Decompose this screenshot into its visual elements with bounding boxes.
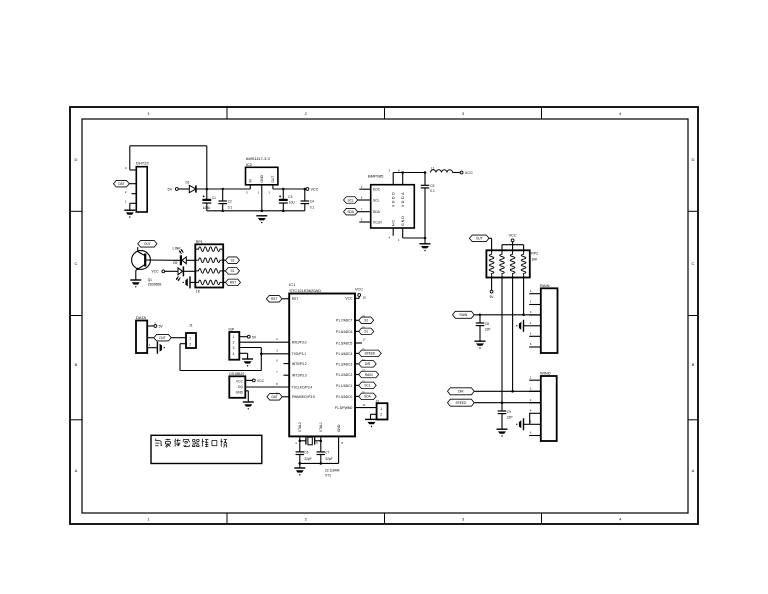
svg-text:0.1: 0.1 [310,205,315,209]
wire 5V to D1 [178,188,189,190]
svg-text:P1.2/ADC2: P1.2/ADC2 [336,373,353,377]
IC2 OUT pin [269,185,273,195]
capacitor C5 0.1 [421,173,435,244]
flag SCL at BMP085 [344,196,371,204]
svg-text:0.1: 0.1 [228,205,233,209]
svg-text:P1.7/ADC7: P1.7/ADC7 [336,319,353,323]
terminal VCC at D6 [152,270,165,274]
wire BMP085 GND pin [398,228,425,242]
wire J1 pin2 to TXD net [180,344,263,371]
svg-text:SCL: SCL [364,384,370,388]
ground at IC2 [256,216,267,224]
svg-text:P1.3/ADC3: P1.3/ADC3 [336,362,353,366]
svg-text:PWM0ECI/P3.5: PWM0ECI/P3.5 [292,395,315,399]
flag S1 at MCU [355,326,374,335]
ground at crystal [294,468,305,475]
svg-text:17: 17 [363,337,367,341]
svg-text:VCC: VCC [257,379,265,383]
svg-text:RP2: RP2 [531,252,538,256]
ground rail under IC2 [207,210,305,213]
ground at RAIN pin4 [516,320,529,332]
ground at ISP [242,359,253,366]
svg-text:RAIN: RAIN [365,373,373,377]
svg-text:A: A [692,468,695,473]
svg-text:SDA: SDA [364,395,371,399]
wire TXD to MCU [261,349,289,354]
border frame [70,107,698,524]
svg-text:22P: 22P [485,327,491,331]
svg-text:C2: C2 [228,199,232,203]
svg-text:NC: NC [392,219,396,226]
flag S2 at MCU [355,314,374,323]
svg-text:VCC: VCC [465,171,473,175]
crystal XT1 22.1184M [300,437,340,478]
IC2 GND pin [257,185,261,211]
svg-text:10K: 10K [531,258,538,262]
ground at WIND pin5 [516,418,529,430]
svg-text:RAIN: RAIN [460,313,468,317]
svg-text:S1: S1 [230,269,234,273]
svg-text:EOC: EOC [373,188,381,192]
wire ISP pin2 to MCU RXD [239,337,289,342]
wire VCC bus to RP2 [502,245,524,252]
svg-text:0.1: 0.1 [430,189,435,193]
svg-text:P1.4/ADC4: P1.4/ADC4 [336,352,353,356]
svg-text:VCC: VCC [509,234,517,238]
wire J2 pin2 to ground [365,414,378,419]
svg-text:VCC: VCC [311,188,319,192]
flag DIR to connector [448,388,541,395]
svg-text:OUT: OUT [271,176,275,183]
svg-text:SCL: SCL [347,198,353,202]
BMP085 VDDA pin [398,168,403,184]
svg-text:IC2: IC2 [246,162,253,167]
flag RAIN at MCU [355,369,379,378]
svg-text:XTAL1: XTAL1 [319,422,323,432]
svg-text:20: 20 [363,295,367,299]
flag DAT at DHT22 [114,180,137,187]
connector RAIN [529,283,557,353]
svg-text:TXD/P3.1: TXD/P3.1 [292,352,306,356]
svg-text:10U: 10U [289,201,296,205]
flag RST at MCU [266,296,289,303]
regulator IC2 AMS1117-3.3 [246,156,278,185]
svg-text:DIR: DIR [458,390,464,394]
DHT22 pin numbers [125,166,127,203]
DATA pin1 wire [147,343,157,348]
svg-text:STC12LE5620AD: STC12LE5620AD [289,288,321,293]
title block [151,435,262,463]
ground at DHT22 [124,210,135,218]
LED D5 LINK [173,247,187,266]
ground at J2 [368,422,376,427]
flag DAT at MCU [267,392,289,400]
svg-text:VCC: VCC [152,270,160,274]
flag DIR at MCU [355,358,376,367]
capacitor C8 22P [476,315,491,341]
ground at BMP085 [420,244,431,252]
BMP085 NC pin stub [388,228,393,240]
svg-text:DAT: DAT [118,182,124,186]
svg-text:C: C [75,261,78,266]
svg-text:BMP085: BMP085 [368,174,384,179]
wire DHT22 pin4 to 5V rail [130,146,207,189]
svg-text:S2: S2 [364,319,368,323]
inductor L1 [431,167,461,173]
DS18B20 VCC pin [245,379,264,383]
capacitor C2 0.1 [218,189,232,211]
MCU GND pin [339,436,344,463]
ground at C8 [475,341,486,348]
svg-text:L1: L1 [431,167,435,171]
capacitor C6 32pF [296,440,312,468]
svg-text:1: 1 [189,337,191,341]
wire RP2 col2 to SPEED [501,276,504,404]
flag SPEED to connector [448,399,541,406]
svg-text:RST: RST [230,281,236,285]
capacitor C7 32pF [317,440,333,464]
svg-text:11: 11 [362,403,365,407]
svg-text:C: C [692,261,695,266]
svg-text:D1: D1 [186,181,190,185]
ground at Q1 [130,280,141,287]
terminal VCC at RP2 [509,234,517,252]
svg-text:WIND: WIND [540,371,551,376]
DATA pin2 to 5V [147,321,163,328]
svg-text:GND: GND [236,390,244,394]
wire RP2 col4 to RAIN [522,276,525,316]
svg-text:Q1: Q1 [148,278,152,282]
sensor U2 DHT22 [136,161,149,213]
jumper J1 [186,324,196,349]
svg-text:32pF: 32pF [325,457,332,461]
svg-text:2: 2 [189,342,191,346]
svg-text:P1.1/ADC1: P1.1/ADC1 [336,384,353,388]
svg-text:C8: C8 [485,322,489,326]
connector ISP [229,327,240,359]
wire MCU PWM0 to J2 [355,403,377,408]
flag SPEED at MCU [355,348,381,357]
MCU VCC pin 20 [355,288,366,300]
svg-text:INT0/P3.2: INT0/P3.2 [292,362,307,366]
svg-text:C9: C9 [507,410,511,414]
svg-text:ISP: ISP [229,327,235,331]
flag RAIN to connector [453,311,541,318]
svg-text:S1: S1 [364,330,368,334]
svg-text:XTAL2: XTAL2 [298,422,302,432]
svg-text:C6: C6 [304,450,308,454]
svg-text:3: 3 [233,346,235,350]
ground at DATA [157,342,165,354]
svg-text:T0CLKO/P3.4: T0CLKO/P3.4 [292,385,313,389]
sensor U3 BMP085 [368,174,414,229]
svg-text:VDDD: VDDD [392,191,396,207]
svg-text:A: A [75,468,78,473]
svg-text:J1: J1 [189,324,193,328]
svg-text:RST: RST [292,297,299,301]
ground at DS18B20 [243,402,254,409]
svg-text:AMS1117-3.3: AMS1117-3.3 [246,156,271,161]
wire VDD rail [393,171,426,174]
svg-text:GND: GND [337,424,341,432]
svg-text:100U: 100U [203,206,211,210]
wire D5 to RP1 [186,259,195,261]
svg-text:INT1/P3.3: INT1/P3.3 [292,374,307,378]
svg-text:D: D [692,157,695,162]
wire WIND pin4 to pin5 [529,413,531,424]
terminal 5V input [168,188,179,192]
wire Q1 emitter to ground [135,270,137,279]
MCU XTAL1 pin [316,436,321,445]
MCU INT0 stub [276,358,289,363]
svg-text:4: 4 [233,352,235,356]
svg-text:B: B [692,362,695,367]
ground at RP1 row4 [183,276,196,288]
transistor Q1 2SD965B [132,251,180,287]
svg-text:1K: 1K [196,289,201,293]
svg-text:C5: C5 [430,184,434,188]
flag OUT at Q1 [138,241,157,252]
svg-text:22.1184M: 22.1184M [325,468,340,472]
wire D6 to RP1 [183,270,195,272]
BMP085 VDDD pin [388,168,393,184]
svg-text:2SD965B: 2SD965B [148,283,162,287]
DHT22 pin2 stub [132,193,137,195]
sensor DS18B20 [229,372,245,398]
svg-text:B: B [75,362,78,367]
svg-text:IC1: IC1 [289,282,296,287]
svg-text:1: 1 [233,335,235,339]
svg-text:VCC: VCC [355,288,363,292]
capacitor C1 100U [202,189,216,211]
svg-text:P1.5/PWM0: P1.5/PWM0 [335,406,353,410]
svg-text:C1: C1 [212,196,216,200]
ISP pin1 to 5V [239,335,257,339]
flag SCL at MCU [355,380,376,389]
capacitor C4 0.1 [301,189,315,211]
svg-text:DIR: DIR [365,362,371,366]
wire IC2 OUT to VCC [273,188,306,191]
MCU IC1 STC12LE5620AD [289,282,355,436]
flag SDA at MCU [355,391,376,400]
wire DS18B20 GND [245,391,248,402]
svg-text:RAIN: RAIN [540,283,550,288]
svg-text:DAT: DAT [271,395,277,399]
MCU INT1 stub [276,370,289,375]
wire ISP pin3 [239,347,261,349]
terminal VCC out [306,188,319,192]
wire crystal ground rail [300,462,339,465]
svg-text:XT1: XT1 [325,474,331,478]
svg-text:RXD/P3.0: RXD/P3.0 [292,341,307,345]
svg-text:C7: C7 [325,450,329,454]
svg-text:DQ: DQ [238,385,243,389]
resistor network RP1 1K [195,240,223,293]
svg-text:VCC: VCC [236,379,244,383]
svg-text:22P: 22P [507,415,513,419]
svg-text:D: D [75,157,78,162]
svg-text:XCLR: XCLR [373,220,382,224]
svg-text:C3: C3 [288,195,292,199]
svg-text:SDA: SDA [373,210,381,214]
svg-text:S2: S2 [230,259,234,263]
svg-text:P1.5/ADC5: P1.5/ADC5 [336,341,353,345]
svg-text:OUT: OUT [476,237,483,241]
flag RST at RP1 [223,279,240,286]
svg-text:C4: C4 [310,199,314,203]
svg-text:SPEED: SPEED [365,352,377,356]
MCU XTAL2 pin [295,436,300,445]
svg-text:RST: RST [271,297,277,301]
capacitor C3 10U [279,189,296,211]
svg-text:VDDA: VDDA [401,191,405,207]
svg-text:OUT: OUT [159,336,166,340]
connector DATA [136,315,147,353]
svg-text:P1.6/ADC6: P1.6/ADC6 [336,330,353,334]
svg-text:D5: D5 [173,261,177,265]
BMP085 EOC pin stub [359,185,370,189]
ground at C9 [497,429,508,436]
flag OUT at RP2 [469,235,491,252]
svg-text:1: 1 [380,407,382,411]
resistor network RP2 10K [486,250,538,277]
jumper J2 [376,399,388,419]
svg-text:SDA: SDA [347,210,354,214]
svg-text:5V: 5V [168,188,173,192]
wire ISP pin4 [239,353,247,358]
wire DHT22 pin1 to ground [130,203,137,210]
svg-text:SCL: SCL [373,198,380,202]
svg-text:GND: GND [260,175,264,183]
svg-text:VCC: VCC [345,297,353,301]
IC2 IN pin [246,185,250,195]
svg-text:DHT22: DHT22 [136,161,149,166]
BMP085 XCLR pin stub [359,218,370,222]
flag S1 [223,268,239,275]
LED D6 [165,266,184,281]
terminal VCC at L1 [460,171,473,175]
wire RP2 to 5V terminal [490,276,495,299]
svg-text:SPEED: SPEED [455,401,467,405]
wire D1 to IC2 IN [196,188,250,191]
connector WIND [529,371,557,441]
svg-text:32pF: 32pF [304,457,311,461]
wire DS18B20 DQ to MCU [245,382,289,387]
svg-text:P1.0/ADC0: P1.0/ADC0 [336,395,353,399]
flag SDA at BMP085 [344,207,371,215]
svg-text:2: 2 [233,341,235,345]
flag OUT at DATA [147,334,186,341]
svg-text:OUT: OUT [144,242,151,246]
capacitor C9 22P [498,403,513,429]
wire RP2 col3 to DIR [511,276,514,393]
MCU P1.5/ADC5 stub pin 17 [355,337,366,343]
svg-text:GND: GND [401,215,405,226]
flag S2 [223,257,239,264]
svg-text:LINK: LINK [173,247,182,251]
diode D1 [186,181,196,193]
svg-text:2: 2 [380,413,382,417]
svg-text:RP1: RP1 [196,240,203,244]
svg-text:DATA: DATA [136,315,146,320]
